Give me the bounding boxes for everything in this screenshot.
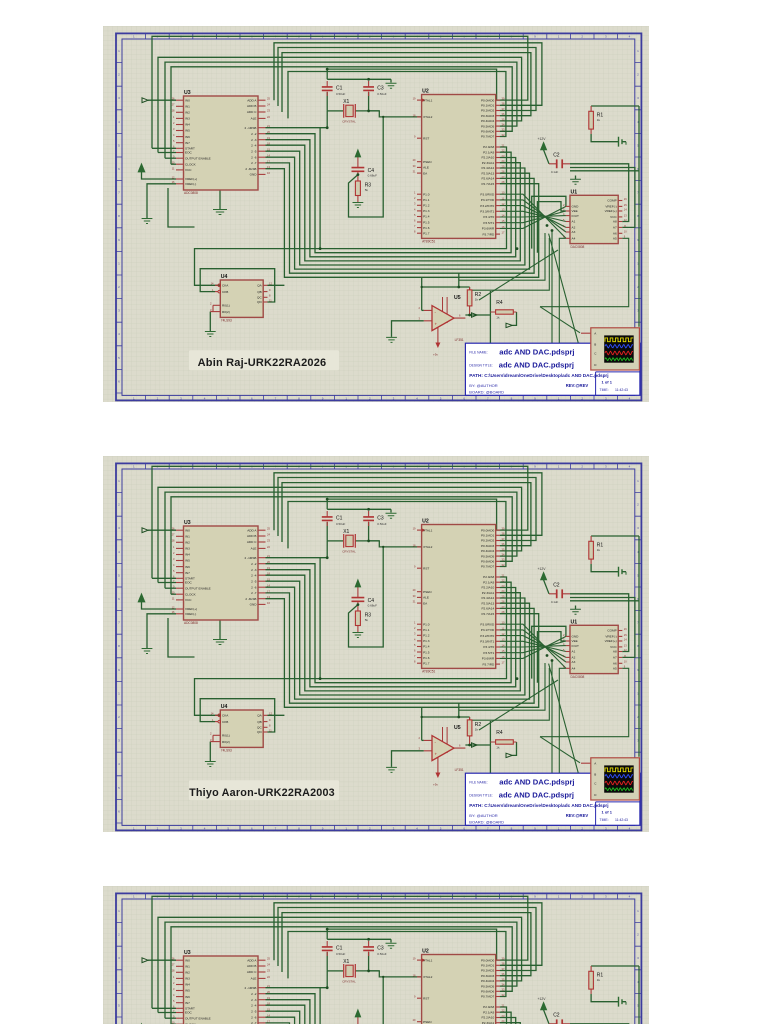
svg-text:Thiyo Aaron-URK22RA2003: Thiyo Aaron-URK22RA2003	[189, 787, 335, 799]
svg-text:Abin Raj-URK22RA2026: Abin Raj-URK22RA2026	[198, 357, 327, 369]
